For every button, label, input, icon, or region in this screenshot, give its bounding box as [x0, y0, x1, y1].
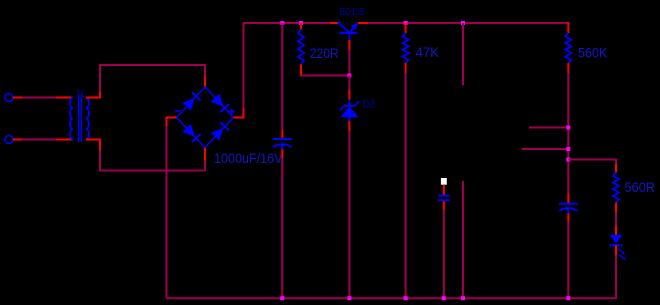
node dot: rail at C2 [442, 296, 446, 300]
resistor R3 560K [565, 33, 571, 63]
wire: secondary top to bridge top [86, 64, 205, 99]
node dot: base junction [347, 74, 351, 78]
transformer T1 [70, 95, 89, 143]
resistor R1 220R [298, 30, 304, 65]
wire: C1 bottom lead to ground rail [281, 150, 283, 299]
svg-text:560K: 560K [578, 45, 607, 60]
wire: zener to ground rail [348, 121, 350, 298]
node dot: top rail at 47K [404, 21, 408, 25]
bridge rectifier frame [177, 87, 234, 148]
wire: top rail right section [358, 22, 568, 24]
wire: middle branch lower segment [462, 181, 464, 298]
wire: secondary bottom to bridge bottom [86, 139, 205, 172]
wire: top rail left section [243, 22, 340, 24]
transistor Q1 BD135 [338, 22, 359, 40]
wire: branch to 560R string [568, 159, 617, 161]
resistor R2 47K top lead [405, 23, 407, 33]
wire: corner down to 560R [615, 160, 617, 173]
wire: 47K bottom to ground rail [405, 63, 407, 298]
resistor R2 47K [403, 33, 409, 63]
node dot: rail at middle branch [461, 296, 465, 300]
wire: bridge plus up to top rail [234, 22, 244, 119]
node dot: branch to 560R [566, 158, 570, 162]
wire: bridge minus to ground rail [167, 117, 177, 299]
wire: bottom input to transformer primary [22, 139, 73, 141]
wire: C3 bottom to ground rail [567, 214, 569, 299]
node dot: rail at 47K [404, 296, 408, 300]
resistor R1 220R top lead [300, 23, 302, 30]
node dot: rail at C3 [566, 296, 570, 300]
diode D4 (bridge bottom-right) [211, 122, 229, 140]
wire: base junction to zener [348, 76, 350, 100]
diode D2 (bridge top-right) [211, 94, 229, 112]
svg-text:47K: 47K [416, 45, 439, 60]
svg-text:DZ: DZ [363, 99, 376, 110]
wire: 220R bottom to base node [300, 65, 349, 77]
wire: LED to ground rail [615, 245, 617, 299]
wire: middle branch upper segment [462, 23, 464, 85]
bridge plus mark [229, 109, 235, 115]
wire: stub tap 1 [529, 127, 568, 129]
svg-text:BD135: BD135 [340, 7, 366, 18]
test point (white square) [441, 178, 447, 185]
svg-text:560R: 560R [625, 180, 656, 195]
wire: test point to C2 [443, 185, 445, 195]
terminal J2 (bottom input) [5, 136, 22, 144]
node dot: tap 2 [566, 147, 570, 151]
node dot: top rail at C1 [280, 21, 284, 25]
wire: base lead down to junction [348, 40, 350, 76]
wire: top input to transformer primary [22, 97, 73, 99]
wire: 560R to LED [615, 203, 617, 235]
svg-text:T1: T1 [76, 89, 84, 100]
node dot: rail at zener [347, 296, 351, 300]
diode D3 (bridge bottom-left) [182, 124, 200, 142]
terminal J1 (top input) [5, 94, 22, 102]
svg-text:1000uF/16V: 1000uF/16V [214, 151, 283, 166]
capacitor C3 [559, 204, 578, 214]
zener diode DZ [340, 100, 359, 122]
wire: C2 bottom to ground rail [443, 201, 445, 298]
wire: top rail corner down to 560K [567, 22, 569, 33]
node dot: rail at C1 [280, 296, 284, 300]
node dot: tap 1 [566, 126, 570, 130]
wire: 560K bottom down through taps [567, 63, 569, 203]
svg-text:220R: 220R [310, 46, 339, 61]
node dot: top rail at 220R [299, 21, 303, 25]
diode D1 (bridge top-left) [182, 92, 200, 110]
capacitor C1 1000uF/16V [273, 139, 292, 150]
wire: stub tap 2 [522, 148, 569, 150]
capacitor C2 [438, 196, 450, 201]
bridge minus mark [175, 110, 181, 112]
node dot: top rail at middle branch [461, 21, 465, 25]
wire: ground rail [167, 297, 617, 299]
resistor R4 560R [613, 173, 619, 203]
LED D5 [610, 235, 626, 260]
wire: C1 top lead [281, 23, 283, 139]
